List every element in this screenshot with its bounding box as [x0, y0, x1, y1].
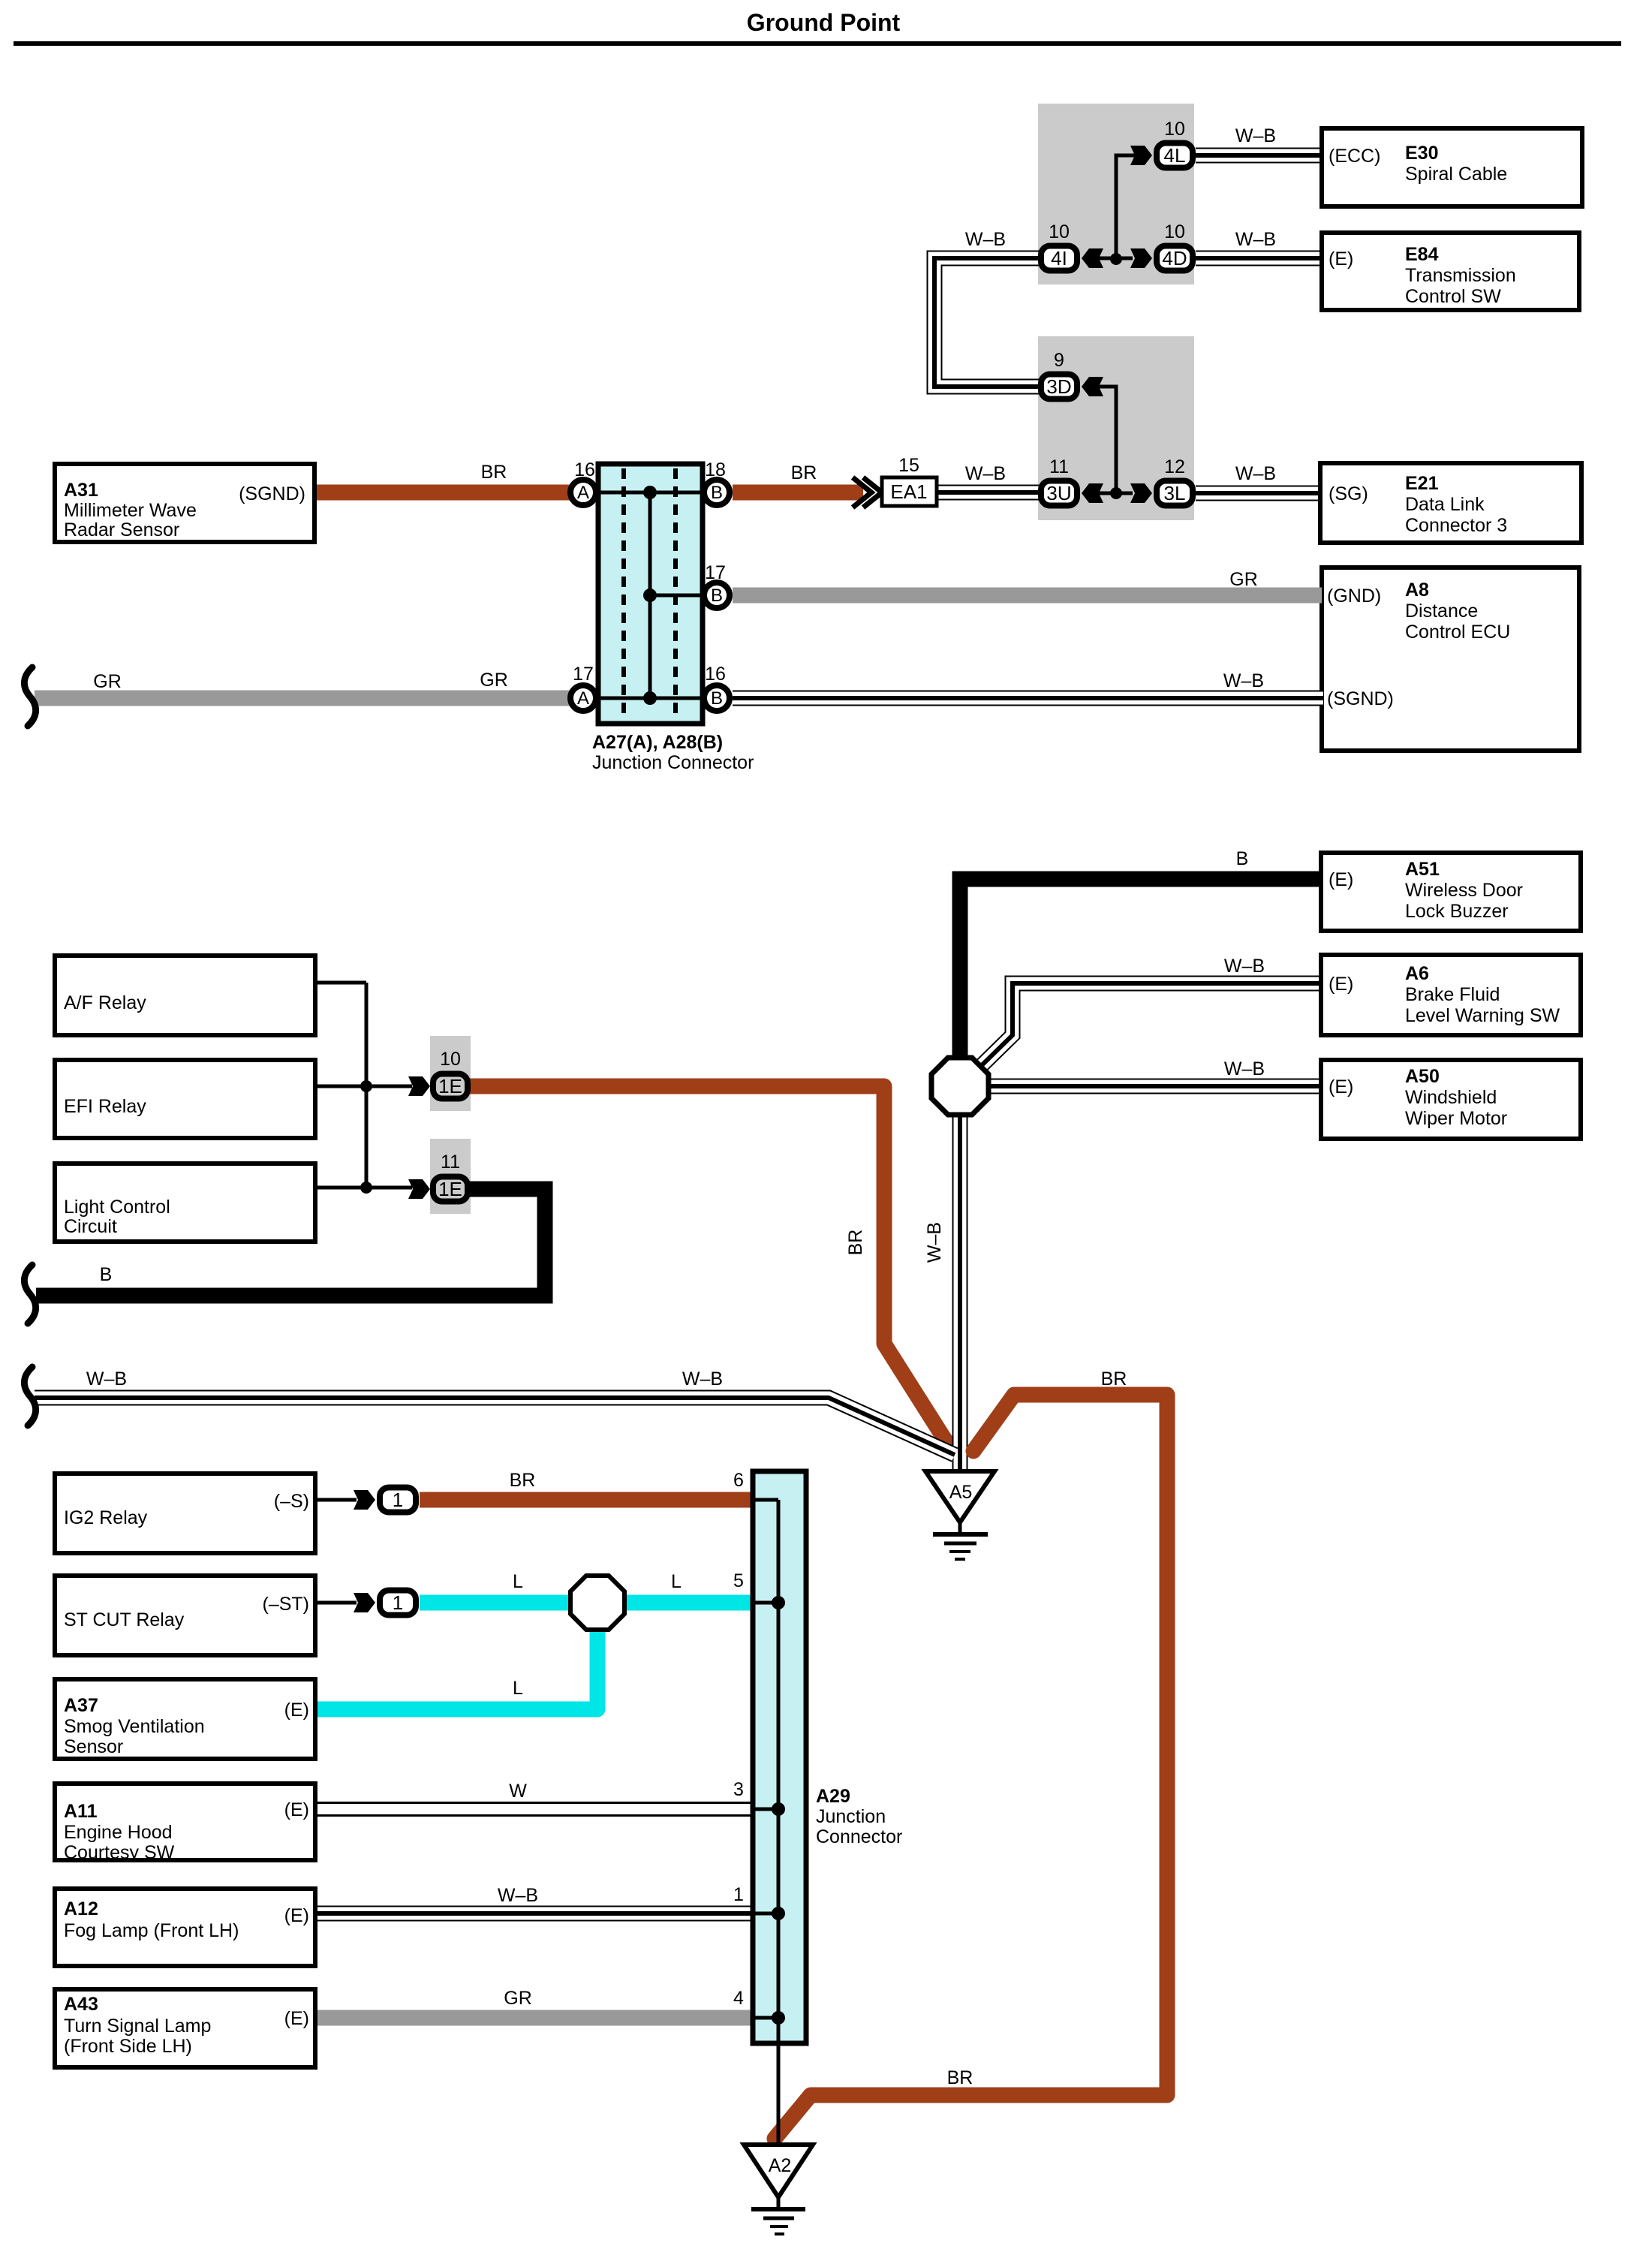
component box A12 Fog Lamp Front LH — [55, 1889, 315, 1966]
svg-text:W–B: W–B — [965, 229, 1006, 250]
svg-text:4: 4 — [733, 1988, 744, 2009]
junction dot 4I-4D — [1110, 253, 1122, 265]
svg-text:Circuit: Circuit — [64, 1216, 117, 1237]
wire B octagon to A51 — [960, 879, 1323, 1059]
connector pin 1 IG2 — [380, 1488, 416, 1513]
svg-text:E21: E21 — [1405, 473, 1439, 494]
wire W-B EA1 to 3U — [935, 485, 1040, 501]
svg-text:W–B: W–B — [498, 1885, 538, 1906]
svg-text:Distance: Distance — [1405, 601, 1478, 622]
wire GR junction B17 to A8 — [733, 588, 1322, 604]
pin circle B 17 — [704, 583, 730, 608]
svg-text:A51: A51 — [1405, 859, 1440, 880]
svg-text:(E): (E) — [1329, 1076, 1353, 1097]
svg-text:B: B — [711, 688, 723, 709]
component box E21 Data Link Connector 3 — [1320, 463, 1581, 543]
svg-text:W–B: W–B — [965, 463, 1006, 484]
wire Light Control row — [315, 1186, 412, 1190]
component box A43 Turn Signal Lamp Front Side LH — [55, 1989, 315, 2067]
wire W-B junction B16 to A8 SGND — [733, 691, 1323, 706]
component box A8 Distance Control ECU — [1322, 568, 1579, 751]
svg-text:(GND): (GND) — [1327, 586, 1381, 607]
svg-text:(E): (E) — [284, 1905, 309, 1926]
svg-text:L: L — [513, 1571, 523, 1592]
svg-text:A: A — [577, 483, 589, 503]
wire BR 1E-10 to ground A5 — [469, 1086, 950, 1448]
svg-text:B: B — [711, 483, 723, 503]
svg-text:Data Link: Data Link — [1405, 494, 1485, 515]
svg-text:5: 5 — [733, 1570, 744, 1591]
svg-text:GR: GR — [93, 671, 122, 692]
connector pin 4D — [1157, 246, 1193, 271]
svg-text:(E): (E) — [284, 2008, 309, 2029]
svg-text:Control SW: Control SW — [1405, 286, 1501, 307]
arrow into pin 1 ST CUT — [354, 1593, 375, 1612]
svg-text:Engine Hood: Engine Hood — [64, 1822, 173, 1843]
svg-text:E30: E30 — [1405, 143, 1438, 164]
svg-text:Junction: Junction — [816, 1806, 886, 1827]
wire W-B A12 to A29 pin1 — [315, 1906, 753, 1922]
wire W-B octagon to A50 — [987, 1079, 1323, 1094]
component box ST CUT Relay — [55, 1576, 315, 1655]
svg-text:A12: A12 — [64, 1898, 98, 1919]
svg-text:Connector: Connector — [816, 1826, 902, 1847]
wire link 3U-3L row — [1098, 492, 1133, 495]
pin circle A 17 — [570, 685, 596, 711]
svg-text:3U: 3U — [1046, 482, 1071, 504]
wire W-B octagon down to A5 — [952, 1113, 968, 1472]
junction connector A27(A) A28(B) body — [598, 464, 703, 724]
shaded connector area 4L/4I/4D — [1038, 104, 1194, 285]
svg-text:Fog Lamp (Front LH): Fog Lamp (Front LH) — [64, 1920, 239, 1941]
ground symbol A5 — [925, 1471, 995, 1559]
svg-text:Wiper Motor: Wiper Motor — [1405, 1108, 1507, 1129]
svg-text:(ECC): (ECC) — [1329, 146, 1380, 167]
arrow into 4L — [1130, 146, 1152, 165]
svg-text:Smog Ventilation: Smog Ventilation — [64, 1716, 205, 1737]
pin circle B 16 — [704, 685, 730, 711]
svg-text:1E: 1E — [438, 1075, 462, 1097]
component box EFI Relay — [55, 1060, 315, 1138]
svg-text:BR: BR — [1101, 1368, 1127, 1389]
svg-text:Wireless Door: Wireless Door — [1405, 880, 1523, 901]
svg-text:(–ST): (–ST) — [263, 1594, 310, 1615]
wire W-B octagon to A6 — [978, 983, 1323, 1069]
svg-text:11: 11 — [441, 1152, 460, 1173]
wire W-B loop 4I to 3D — [934, 258, 1041, 387]
arrow into 3L — [1130, 483, 1152, 503]
component box Light Control Circuit — [55, 1164, 315, 1242]
svg-text:16: 16 — [574, 459, 595, 480]
wire B 1E-11 loop to left break — [36, 1189, 545, 1296]
svg-text:A37: A37 — [64, 1695, 98, 1716]
svg-text:BR: BR — [947, 2067, 973, 2088]
wire BR A31 to junction — [314, 485, 570, 501]
svg-text:Light Control: Light Control — [64, 1197, 170, 1218]
svg-text:A29: A29 — [816, 1786, 850, 1807]
svg-text:Courtesy SW: Courtesy SW — [64, 1842, 175, 1863]
svg-text:W–B: W–B — [1223, 670, 1264, 691]
svg-text:10: 10 — [1164, 119, 1185, 140]
svg-text:Transmission: Transmission — [1405, 265, 1516, 286]
bus line inside junction connector — [600, 492, 700, 698]
octagon junction on L wire — [570, 1576, 624, 1630]
svg-text:Lock Buzzer: Lock Buzzer — [1405, 901, 1509, 922]
junction dot 3U-3L — [1110, 487, 1122, 499]
wire link 4I-4D row — [1098, 257, 1133, 260]
double chevron into EA1 — [853, 477, 882, 507]
svg-text:18: 18 — [705, 459, 726, 480]
svg-text:B: B — [711, 586, 723, 606]
component box A11 Engine Hood Courtesy SW — [55, 1784, 315, 1863]
svg-text:BR: BR — [510, 1470, 536, 1491]
component box A6 Brake Fluid Level Warning SW — [1321, 955, 1581, 1035]
wire BR IG2 to A29 pin6 — [420, 1492, 753, 1508]
shaded area pin 1E-11 — [430, 1139, 471, 1214]
ground symbol A2 — [744, 2145, 813, 2234]
svg-text:17: 17 — [573, 664, 594, 685]
bus wire relays vertical — [365, 983, 369, 1188]
bus wire inside A29 to ground A2 — [753, 1500, 778, 2145]
svg-text:W: W — [509, 1781, 527, 1802]
svg-text:Windshield: Windshield — [1405, 1087, 1497, 1108]
svg-text:Connector 3: Connector 3 — [1405, 515, 1507, 536]
svg-text:IG2 Relay: IG2 Relay — [64, 1507, 148, 1528]
svg-text:(E): (E) — [284, 1799, 309, 1820]
wire L ST CUT to A29 pin5 — [420, 1595, 753, 1611]
svg-text:A2: A2 — [769, 2155, 792, 2176]
wire W-B 3L to E21 — [1196, 486, 1322, 501]
svg-text:4D: 4D — [1162, 247, 1187, 269]
svg-text:W–B: W–B — [924, 1222, 945, 1263]
svg-text:A5: A5 — [949, 1482, 973, 1503]
junction dot A29 pin3 — [772, 1802, 785, 1816]
svg-text:10: 10 — [440, 1049, 461, 1070]
svg-text:W–B: W–B — [682, 1368, 723, 1389]
svg-text:Spiral Cable: Spiral Cable — [1405, 164, 1507, 185]
shaded area pin 1E-10 — [430, 1036, 471, 1111]
dashed line left inside junction connector — [621, 468, 626, 719]
wire BR right loop to ground A2 — [775, 1395, 1167, 2139]
wire IG2 relay to arrow — [315, 1498, 357, 1502]
title rule — [14, 41, 1621, 46]
component box A50 Windshield Wiper Motor — [1321, 1060, 1581, 1139]
arrow into 3D — [1082, 377, 1103, 396]
svg-text:W–B: W–B — [1235, 229, 1276, 250]
break symbol W-B long wire — [24, 1367, 35, 1426]
wire GR A43 to A29 pin4 — [315, 2010, 753, 2026]
svg-text:B: B — [1236, 848, 1249, 869]
svg-text:15: 15 — [898, 455, 919, 476]
component box A31 Millimeter Wave Radar Sensor — [55, 464, 314, 542]
svg-text:A31: A31 — [64, 480, 98, 501]
arrow into 1E-10 — [408, 1076, 430, 1096]
svg-text:GR: GR — [504, 1988, 532, 2009]
svg-text:Control ECU: Control ECU — [1405, 622, 1510, 643]
svg-text:Millimeter Wave: Millimeter Wave — [64, 500, 197, 521]
svg-text:3: 3 — [733, 1779, 744, 1800]
wire GR left broken to junction A17 — [35, 691, 570, 706]
pin circle A 16 — [570, 480, 596, 505]
junction dot row17 — [643, 589, 657, 602]
connector pin 3D — [1041, 375, 1077, 399]
svg-text:(SGND): (SGND) — [1327, 688, 1394, 709]
svg-text:10: 10 — [1164, 221, 1185, 242]
wire A/F relay to bus — [315, 981, 366, 985]
svg-text:10: 10 — [1049, 221, 1070, 242]
svg-text:Turn Signal Lamp: Turn Signal Lamp — [64, 2016, 211, 2037]
svg-text:16: 16 — [705, 664, 726, 685]
svg-text:(E): (E) — [1329, 974, 1353, 995]
svg-text:1E: 1E — [438, 1178, 462, 1200]
wire ST CUT relay to arrow — [315, 1601, 357, 1605]
junction connector A29 body — [753, 1471, 806, 2043]
svg-text:4L: 4L — [1164, 144, 1186, 167]
octagon junction near A5 — [931, 1058, 988, 1115]
svg-text:12: 12 — [1164, 456, 1185, 477]
svg-text:(SG): (SG) — [1329, 483, 1368, 504]
wire W-B long broken to A5 — [35, 1398, 955, 1455]
junction dot A29 pin4 — [772, 2011, 785, 2025]
component box A51 Wireless Door Lock Buzzer — [1321, 853, 1581, 931]
svg-text:L: L — [513, 1678, 523, 1699]
svg-text:A43: A43 — [64, 1994, 98, 2015]
svg-text:A27(A), A28(B): A27(A), A28(B) — [592, 732, 723, 753]
svg-text:EFI Relay: EFI Relay — [64, 1096, 146, 1117]
svg-text:BR: BR — [791, 462, 817, 483]
svg-text:B: B — [100, 1264, 113, 1285]
svg-text:A8: A8 — [1405, 580, 1429, 601]
svg-text:Ground Point: Ground Point — [747, 9, 901, 36]
svg-text:L: L — [671, 1571, 682, 1592]
svg-text:E84: E84 — [1405, 244, 1439, 265]
svg-text:Brake Fluid: Brake Fluid — [1405, 984, 1500, 1005]
break symbol B wire — [24, 1265, 35, 1323]
component box A37 Smog Ventilation Sensor — [55, 1679, 315, 1759]
junction dot A29 pin1 — [772, 1907, 785, 1920]
junction dot row16 — [643, 486, 657, 499]
svg-text:Junction Connector: Junction Connector — [592, 752, 754, 773]
wire link 4L row — [1116, 155, 1135, 259]
svg-text:A: A — [577, 688, 589, 709]
svg-text:GR: GR — [1229, 569, 1258, 590]
svg-text:A6: A6 — [1405, 963, 1429, 984]
svg-text:GR: GR — [480, 670, 508, 691]
svg-text:A50: A50 — [1405, 1066, 1440, 1087]
svg-text:17: 17 — [705, 562, 726, 583]
svg-text:(–S): (–S) — [274, 1491, 309, 1512]
svg-text:W–B: W–B — [1235, 125, 1276, 146]
junction dot row16b — [643, 691, 657, 705]
wire W-B 4L to E30 — [1196, 148, 1323, 164]
svg-text:1: 1 — [393, 1489, 403, 1511]
svg-text:W–B: W–B — [86, 1368, 127, 1389]
svg-text:(E): (E) — [1329, 869, 1353, 890]
svg-text:1: 1 — [733, 1884, 744, 1905]
svg-text:W–B: W–B — [1224, 1058, 1265, 1079]
wire BR junction to EA1 — [733, 485, 863, 501]
junction dot Light Control row — [360, 1182, 372, 1194]
arrow into 3U — [1082, 483, 1103, 503]
connector pin 4I — [1041, 246, 1077, 271]
svg-text:1: 1 — [393, 1591, 403, 1614]
component box IG2 Relay — [55, 1474, 315, 1553]
svg-text:11: 11 — [1049, 456, 1069, 477]
svg-text:(Front Side LH): (Front Side LH) — [64, 2036, 192, 2057]
component box E84 Transmission Control SW — [1322, 233, 1579, 310]
connector pin 4L — [1157, 143, 1193, 168]
wire EFI relay row — [315, 1085, 412, 1088]
svg-text:A/F Relay: A/F Relay — [64, 992, 146, 1013]
svg-text:BR: BR — [481, 462, 507, 483]
svg-text:3L: 3L — [1164, 482, 1186, 504]
connector pin 3U — [1041, 481, 1077, 506]
wire W A11 to A29 pin3 — [315, 1802, 753, 1817]
shaded connector area 3D/3U/3L — [1038, 336, 1194, 520]
svg-text:Sensor: Sensor — [64, 1736, 123, 1757]
wire W-B 4D to E84 — [1196, 251, 1323, 266]
svg-text:(SGND): (SGND) — [239, 483, 305, 504]
junction dot A29 pin5 — [772, 1596, 785, 1609]
component box E30 Spiral Cable — [1322, 128, 1582, 206]
svg-text:9: 9 — [1054, 350, 1064, 371]
connector pin 1 ST CUT — [380, 1591, 416, 1615]
break symbol GR wire — [24, 667, 35, 726]
svg-text:A11: A11 — [64, 1801, 98, 1822]
ground terminal box EA1 — [882, 477, 937, 506]
svg-text:(E): (E) — [284, 1700, 309, 1721]
arrow into 4I — [1082, 248, 1103, 268]
svg-text:3D: 3D — [1046, 375, 1071, 398]
svg-text:Level Warning SW: Level Warning SW — [1405, 1005, 1560, 1026]
svg-text:6: 6 — [733, 1470, 744, 1491]
connector pin 1E-10 — [433, 1074, 468, 1099]
wire L octagon branch to A37 — [315, 1628, 597, 1709]
arrow into 1E-11 — [408, 1179, 430, 1199]
svg-text:ST CUT Relay: ST CUT Relay — [64, 1609, 185, 1630]
svg-text:(E): (E) — [1329, 248, 1353, 269]
svg-text:EA1: EA1 — [890, 480, 927, 503]
svg-text:W–B: W–B — [1224, 956, 1265, 977]
svg-text:W–B: W–B — [1235, 463, 1276, 484]
svg-text:4I: 4I — [1051, 247, 1067, 269]
svg-text:BR: BR — [845, 1230, 866, 1256]
wire link 3D row — [1097, 387, 1116, 493]
connector pin 1E-11 — [433, 1177, 468, 1202]
dashed line right inside junction connector — [673, 468, 678, 719]
connector pin 3L — [1157, 481, 1193, 506]
pin circle B 18 — [704, 480, 730, 505]
arrow into 4D — [1130, 248, 1152, 268]
component box A/F Relay — [55, 956, 315, 1035]
arrow into pin 1 IG2 — [354, 1490, 375, 1510]
svg-text:Radar Sensor: Radar Sensor — [64, 519, 179, 540]
junction dot EFI row — [360, 1080, 372, 1092]
